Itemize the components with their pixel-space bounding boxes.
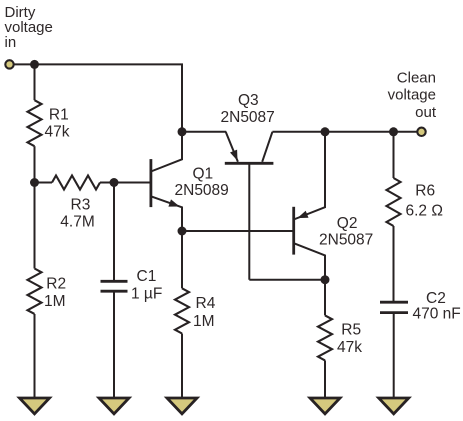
svg-text:R4: R4	[196, 295, 216, 312]
junction: Q1 collector node	[178, 127, 187, 136]
svg-text:R2: R2	[46, 275, 66, 292]
junction: node B (R1/R2/R3)	[30, 178, 39, 187]
svg-text:R5: R5	[341, 322, 361, 339]
svg-text:2N5087: 2N5087	[221, 109, 275, 126]
wire: Q3 base to node F	[249, 279, 325, 281]
svg-text:6.2 Ω: 6.2 Ω	[406, 202, 443, 219]
resistor R6 6.2ohm (vertical)	[387, 132, 401, 302]
svg-text:Q2: Q2	[337, 215, 358, 232]
label Q2	[337, 215, 358, 232]
svg-text:1M: 1M	[44, 293, 66, 310]
transistor Q3 collector lead	[262, 132, 272, 162]
ground under R5	[310, 398, 340, 414]
transistor Q3 2N5087 base bar (horizontal)	[225, 162, 274, 165]
transistor Q2 2N5087 base bar	[292, 207, 295, 255]
svg-text:C1: C1	[137, 268, 157, 285]
transistor Q3 base lead (down)	[248, 163, 250, 279]
wire: output rail Q2 to R6 node	[325, 131, 394, 133]
label R3 value 4.7M	[60, 214, 94, 231]
svg-text:voltage: voltage	[388, 86, 436, 103]
resistor R3 4.7M (horizontal)	[35, 176, 115, 190]
svg-text:4.7M: 4.7M	[60, 214, 94, 231]
wire: input rail (terminal to top-right corner)	[15, 63, 184, 65]
node: clean voltage output terminal	[417, 128, 425, 136]
wire: node C to Q1 base	[114, 182, 150, 184]
svg-text:47k: 47k	[45, 123, 70, 140]
svg-text:Q1: Q1	[193, 166, 214, 183]
label R4	[196, 295, 216, 312]
junction: output rail node at R6	[389, 127, 398, 136]
junction: input node A	[30, 60, 39, 69]
capacitor C1 1uF (vertical)	[101, 183, 128, 399]
label C2	[426, 290, 446, 307]
ground under R2	[20, 398, 50, 414]
label C1 value 1 uF	[131, 285, 162, 302]
svg-text:1M: 1M	[193, 313, 215, 330]
ground under C1	[99, 398, 129, 414]
junction: output rail node at Q2	[321, 127, 330, 136]
junction: Q1 emitter node	[178, 227, 187, 236]
ground under R4	[167, 398, 197, 414]
svg-text:2N5087: 2N5087	[319, 232, 373, 249]
transistor Q2 collector lead	[294, 243, 325, 280]
wire: Q3 collector to output rail	[272, 131, 325, 133]
wire: input rail drop to Q1 collector node	[181, 64, 183, 131]
resistor R2 1M (vertical)	[28, 183, 42, 399]
label: Clean voltage out	[388, 70, 437, 122]
label C2 value 470 nF	[413, 305, 461, 322]
svg-text:2N5089: 2N5089	[175, 182, 229, 199]
transistor Q1 2N5089 base bar	[149, 159, 152, 207]
wire: Q1 emitter node to Q2 base	[182, 230, 293, 232]
label Q1	[193, 166, 214, 183]
label R5 value 47k	[337, 339, 362, 356]
transistor Q1 emitter lead with arrow	[151, 196, 182, 231]
label C1	[137, 268, 157, 285]
svg-text:out: out	[415, 104, 437, 121]
node: dirty voltage input terminal	[5, 60, 13, 68]
svg-text:1 µF: 1 µF	[131, 285, 162, 302]
resistor R5 47k (vertical)	[318, 280, 332, 398]
svg-text:470 nF: 470 nF	[413, 305, 461, 322]
resistor R4 1M (vertical)	[175, 231, 189, 398]
capacitor C2 470nF (vertical)	[380, 302, 408, 398]
label Q2 part 2N5087	[319, 232, 373, 249]
svg-text:Q3: Q3	[238, 92, 259, 109]
label R4 value 1M	[193, 313, 215, 330]
resistor R1 47k (vertical)	[28, 64, 42, 182]
label Q3 part 2N5087	[221, 109, 275, 126]
label R6 value 6.2 ohm	[406, 202, 443, 219]
svg-text:Clean: Clean	[397, 70, 436, 87]
label: Dirty voltage in	[5, 4, 53, 51]
junction: node F (Q2 collector/Q3 base/R5)	[321, 275, 330, 284]
svg-text:R6: R6	[415, 183, 435, 200]
label R2	[46, 275, 66, 292]
label Q1 part 2N5089	[175, 182, 229, 199]
label R3	[71, 196, 91, 213]
label R1	[49, 107, 69, 124]
label R2 value 1M	[44, 293, 66, 310]
transistor Q3 emitter lead with arrow (into bar)	[226, 132, 238, 162]
wire: R6 node to output terminal	[394, 131, 418, 133]
label Q3	[238, 92, 259, 109]
label R5	[341, 322, 361, 339]
junction: node C (R3/C1/Q1 base)	[110, 178, 119, 187]
transistor Q2 emitter lead with arrow (into bar)	[294, 132, 325, 220]
label R6	[415, 183, 435, 200]
label R1 value 47k	[45, 123, 70, 140]
svg-text:in: in	[5, 34, 17, 51]
svg-text:R3: R3	[71, 196, 91, 213]
ground under C2	[379, 398, 409, 414]
svg-text:47k: 47k	[337, 339, 362, 356]
svg-text:R1: R1	[49, 107, 69, 124]
transistor Q1 collector lead	[151, 132, 182, 172]
wire: collector rail to Q3 emitter	[182, 131, 226, 133]
